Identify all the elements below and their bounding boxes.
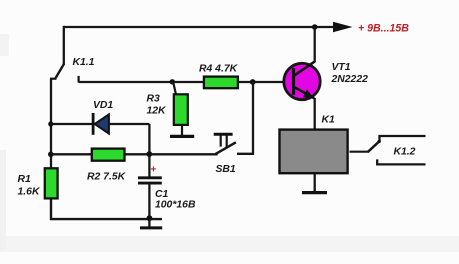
resistor R4	[204, 77, 238, 89]
wire K1.2 upper throw	[380, 136, 426, 141]
relay K1	[280, 130, 348, 174]
wire K1.2 common	[350, 151, 369, 153]
pushbutton SB1 blade	[215, 142, 236, 154]
diode VD1 cathode bar	[92, 113, 95, 135]
resistor R1	[45, 168, 58, 198]
capacitor C1 plate bottom	[138, 182, 162, 185]
node R2 row on rail	[48, 152, 54, 158]
wire ground stem bottom	[148, 219, 150, 227]
node base junction	[250, 79, 256, 85]
svg-text:SB1: SB1	[216, 164, 236, 175]
wire R3 stem top	[173, 82, 176, 95]
svg-text:2N2222: 2N2222	[331, 74, 369, 85]
svg-text:VT1: VT1	[332, 62, 351, 73]
ground bar bottom	[140, 226, 162, 229]
wire R3 stem bottom	[181, 125, 183, 136]
resistor R2	[92, 149, 125, 161]
ground bar R3	[170, 135, 194, 138]
pushbutton SB1 stem left	[220, 135, 222, 147]
svg-text:R3: R3	[147, 94, 161, 105]
wire base row	[79, 81, 294, 83]
diode VD1	[95, 114, 109, 133]
wire top supply rail	[64, 26, 334, 28]
wire R2 row	[51, 153, 218, 155]
svg-text:R4 4.7K: R4 4.7K	[199, 64, 239, 75]
node diode row on rail	[48, 121, 53, 126]
wire left rail	[50, 79, 52, 170]
svg-text:C1: C1	[155, 189, 169, 200]
wire C1 stem	[148, 184, 150, 220]
switch K1.2 blade	[368, 141, 380, 152]
svg-text:+: +	[151, 165, 157, 176]
wire node vertical	[148, 124, 150, 177]
switch K1.1	[50, 26, 79, 83]
node supply junction	[312, 24, 318, 30]
svg-text:R1: R1	[18, 174, 32, 185]
switch K1.2 pivot	[378, 140, 381, 143]
svg-text:12K: 12K	[147, 106, 168, 117]
pushbutton SB1 stem right	[226, 135, 228, 148]
wire K1.2 lower throw	[377, 159, 425, 164]
diode VD1 wire left	[51, 123, 93, 125]
transistor VT1	[284, 61, 320, 99]
node bottom	[147, 215, 153, 221]
node C1 top	[146, 151, 152, 157]
wire collector riser	[314, 27, 316, 62]
wire relay ground stem	[314, 173, 316, 192]
svg-text:1.6K: 1.6K	[18, 187, 41, 198]
supply arrow	[333, 22, 353, 32]
wire emitter riser	[314, 98, 316, 130]
ground bar relay	[302, 191, 327, 194]
svg-text:K1.1: K1.1	[73, 57, 95, 68]
svg-text:100*16В: 100*16В	[155, 200, 196, 211]
wire left rail lower	[51, 198, 162, 220]
svg-text:K1.2: K1.2	[394, 147, 416, 158]
svg-text:+ 9В...15В: + 9В...15В	[358, 23, 409, 35]
node R3 junction	[170, 79, 175, 84]
svg-text:R2 7.5K: R2 7.5K	[87, 171, 127, 182]
resistor R3	[174, 94, 188, 125]
diode VD1 wire right	[109, 123, 149, 125]
capacitor C1 plate top	[138, 176, 162, 179]
svg-text:VD1: VD1	[93, 100, 113, 111]
pushbutton SB1 plunger bar	[214, 133, 233, 136]
svg-text:K1: K1	[322, 114, 336, 125]
wire SB1 riser	[237, 82, 253, 154]
